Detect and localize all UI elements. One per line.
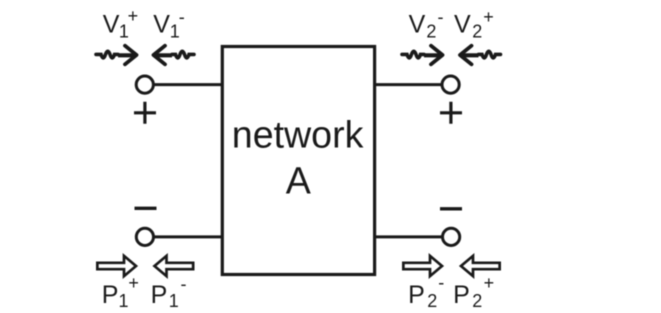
svg-text:P: P	[151, 281, 168, 309]
block arrow: power P1-	[155, 256, 194, 276]
terminal: port 1 top (circle)	[136, 76, 153, 93]
polarity - (port 1)	[135, 207, 157, 210]
terminal: port 1 bottom (circle)	[136, 228, 153, 245]
wire: port 2 top lead	[375, 83, 442, 86]
wavy arrow: incident wave V1+	[96, 46, 137, 65]
svg-text:2: 2	[426, 21, 436, 41]
svg-text:V: V	[153, 11, 170, 39]
svg-text:+: +	[128, 273, 139, 293]
svg-text:P: P	[102, 281, 119, 309]
wavy arrow: reflected wave V1-	[154, 46, 195, 65]
svg-text:+: +	[128, 6, 139, 26]
wavy arrow: reflected wave V2+	[460, 46, 501, 65]
svg-text:A: A	[286, 160, 311, 202]
wire: port 2 bottom lead	[375, 235, 443, 238]
svg-text:-: -	[438, 7, 444, 27]
network box A (two-port network)	[222, 47, 374, 275]
polarity - (port 2)	[440, 207, 462, 210]
svg-text:-: -	[181, 274, 187, 294]
svg-text:2: 2	[472, 21, 482, 41]
svg-text:V: V	[409, 11, 426, 39]
svg-text:network: network	[232, 114, 364, 156]
svg-text:-: -	[179, 7, 185, 27]
polarity + (port 1)	[134, 102, 156, 124]
terminal: port 2 bottom (circle)	[443, 228, 460, 245]
polarity + (port 2)	[440, 102, 462, 124]
svg-text:-: -	[438, 272, 444, 292]
svg-text:+: +	[483, 7, 494, 27]
svg-text:V: V	[454, 11, 471, 39]
block arrow: power P1+	[97, 256, 136, 276]
svg-text:1: 1	[118, 291, 128, 311]
svg-text:2: 2	[427, 291, 437, 311]
svg-text:P: P	[453, 281, 470, 309]
wire: port 1 top lead	[154, 83, 223, 86]
wire: port 1 bottom lead	[154, 235, 223, 238]
terminal: port 2 top (circle)	[442, 76, 459, 93]
svg-text:+: +	[484, 273, 495, 293]
svg-text:2: 2	[472, 291, 482, 311]
block arrow: power P2-	[403, 256, 442, 276]
svg-text:P: P	[408, 281, 425, 309]
wavy arrow: incident wave V2-	[402, 46, 443, 65]
svg-text:1: 1	[169, 291, 179, 311]
block arrow: power P2+	[461, 256, 500, 276]
svg-text:V: V	[103, 11, 120, 39]
